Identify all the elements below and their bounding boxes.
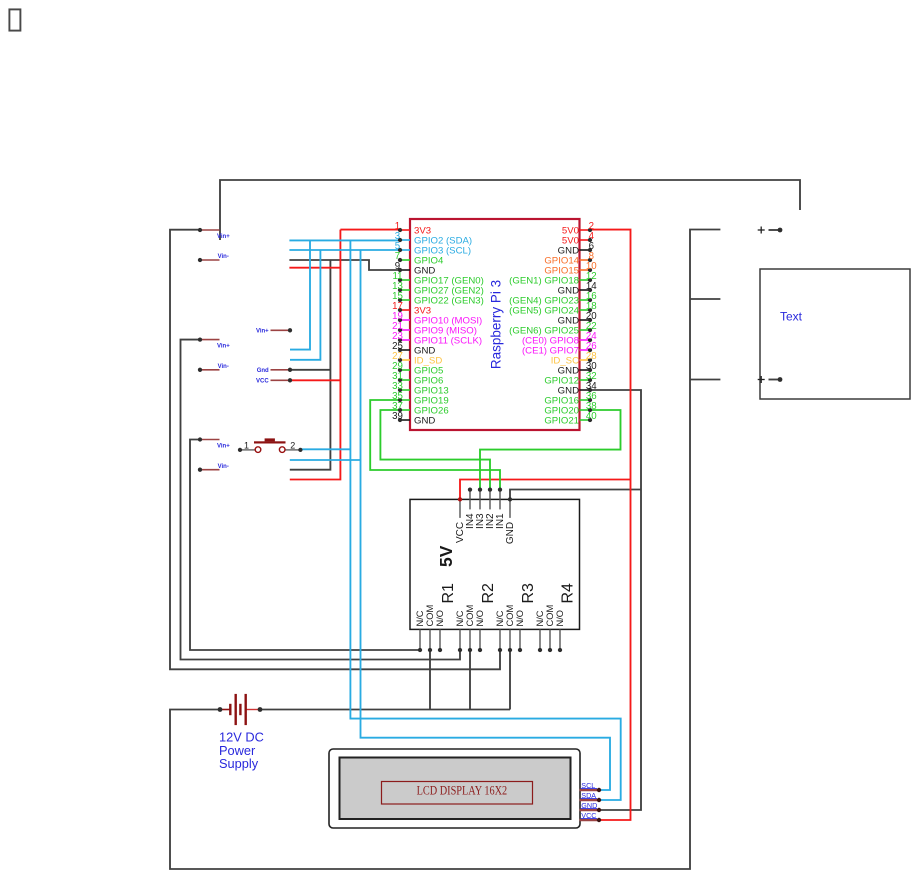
svg-text:N/O: N/O <box>475 610 485 627</box>
svg-text:N/C: N/C <box>455 610 465 626</box>
svg-text:Vin+: Vin+ <box>217 444 230 450</box>
svg-text:R3: R3 <box>520 583 537 604</box>
svg-text:R4: R4 <box>560 583 577 604</box>
svg-text:N/O: N/O <box>435 610 445 627</box>
svg-text:5V: 5V <box>436 545 456 567</box>
svg-text:COM: COM <box>425 605 435 627</box>
svg-text:N/O: N/O <box>515 610 525 627</box>
svg-text:40: 40 <box>586 411 597 422</box>
svg-text:COM: COM <box>505 605 515 627</box>
svg-text:GND: GND <box>505 522 516 544</box>
svg-text:Vin+: Vin+ <box>256 329 269 335</box>
svg-text:Vin-: Vin- <box>218 464 229 470</box>
svg-text:Vin+: Vin+ <box>217 344 230 350</box>
svg-text:R2: R2 <box>480 583 497 604</box>
svg-text:Raspberry Pi 3: Raspberry Pi 3 <box>489 280 504 369</box>
svg-text:2: 2 <box>290 441 295 451</box>
svg-text:N/C: N/C <box>415 610 425 626</box>
svg-text:Text: Text <box>780 309 803 323</box>
svg-text:Gnd: Gnd <box>257 368 269 374</box>
svg-text:GND: GND <box>414 415 435 426</box>
svg-text:LCD DISPLAY 16X2: LCD DISPLAY 16X2 <box>417 784 508 798</box>
svg-text:Supply: Supply <box>219 756 259 771</box>
svg-text:Vin+: Vin+ <box>217 234 230 240</box>
svg-text:COM: COM <box>545 605 555 627</box>
svg-text:N/C: N/C <box>495 610 505 626</box>
svg-text:39: 39 <box>392 411 403 422</box>
svg-text:N/O: N/O <box>555 610 565 627</box>
svg-text:VCC: VCC <box>256 379 269 385</box>
svg-text:COM: COM <box>465 605 475 627</box>
svg-text:N/C: N/C <box>535 610 545 626</box>
svg-text:Vin-: Vin- <box>218 254 229 260</box>
svg-text:GPIO21: GPIO21 <box>544 415 579 426</box>
svg-text:R1: R1 <box>440 583 457 604</box>
svg-text:Vin-: Vin- <box>218 364 229 370</box>
svg-text:1: 1 <box>244 441 249 451</box>
